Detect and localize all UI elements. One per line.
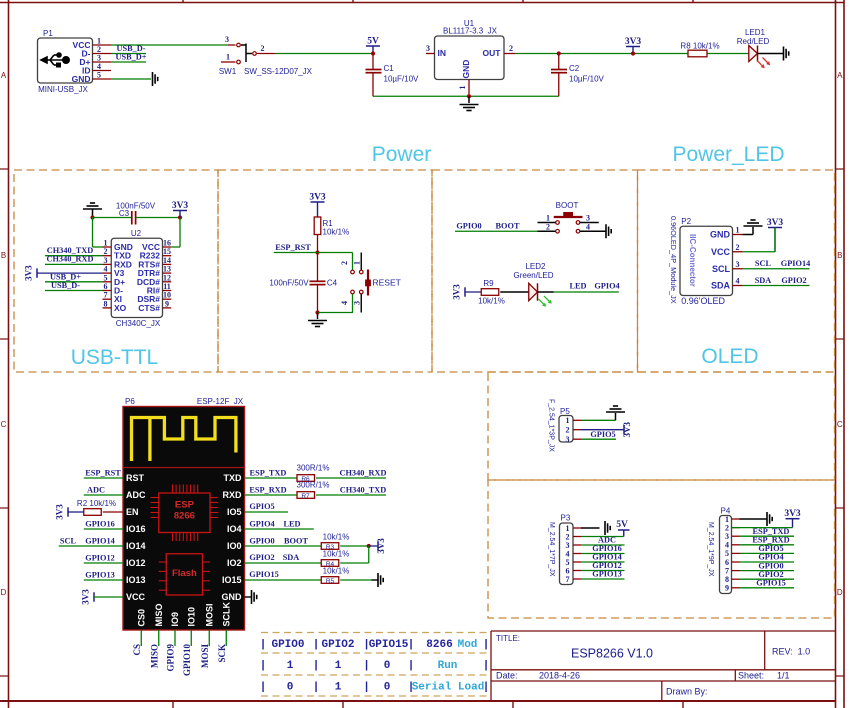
svg-text:0.96OLED_4P_Module_JX: 0.96OLED_4P_Module_JX (669, 216, 678, 304)
svg-text:MISO: MISO (149, 644, 159, 668)
svg-text:2: 2 (546, 223, 550, 232)
svg-text:|: | (408, 639, 415, 651)
svg-text:100nF/50V: 100nF/50V (269, 279, 309, 288)
svg-text:BOOT: BOOT (284, 537, 308, 546)
svg-text:GND: GND (461, 60, 471, 79)
svg-text:GPIO15: GPIO15 (249, 570, 279, 579)
svg-text:3V3: 3V3 (767, 218, 784, 228)
svg-text:SCL: SCL (60, 537, 77, 546)
svg-text:GPIO14: GPIO14 (85, 537, 115, 546)
svg-text:3V3: 3V3 (55, 504, 65, 520)
svg-text:IO10: IO10 (186, 607, 196, 627)
svg-text:13: 13 (163, 265, 171, 274)
svg-text:B: B (1, 251, 6, 260)
svg-text:USB_D+: USB_D+ (115, 53, 146, 62)
svg-text:ADC: ADC (87, 486, 105, 495)
svg-text:5V: 5V (616, 520, 628, 530)
svg-text:XO: XO (114, 303, 127, 313)
svg-text:8266: 8266 (426, 639, 452, 651)
svg-text:IO16: IO16 (126, 524, 146, 534)
svg-text:REV: 1.0: REV: 1.0 (772, 647, 810, 657)
svg-text:15: 15 (163, 247, 171, 256)
svg-text:D: D (1, 588, 7, 597)
svg-text:VCC: VCC (711, 247, 731, 257)
svg-text:3V3: 3V3 (622, 421, 632, 437)
svg-text:0.96'OLED: 0.96'OLED (681, 296, 725, 306)
svg-text:LED: LED (569, 282, 586, 291)
svg-text:A: A (837, 71, 843, 80)
svg-text:GND: GND (72, 74, 91, 84)
svg-text:GPIO0: GPIO0 (249, 537, 274, 546)
svg-text:1: 1 (546, 214, 550, 223)
svg-text:MISO: MISO (154, 603, 164, 626)
svg-text:5V: 5V (367, 37, 379, 47)
svg-text:8266: 8266 (174, 511, 195, 522)
svg-text:C4: C4 (327, 279, 338, 288)
svg-text:3V3: 3V3 (376, 538, 386, 554)
svg-text:Drawn By:: Drawn By: (666, 687, 708, 697)
svg-text:|: | (363, 682, 370, 694)
svg-text:GPIO2: GPIO2 (249, 553, 274, 562)
svg-text:IO4: IO4 (227, 524, 242, 534)
svg-text:C: C (837, 420, 843, 429)
svg-text:|: | (260, 660, 267, 672)
svg-text:GPIO12: GPIO12 (85, 554, 115, 563)
svg-text:BOOT: BOOT (496, 222, 520, 231)
svg-text:ESP8266 V1.0: ESP8266 V1.0 (571, 647, 653, 661)
svg-text:|: | (313, 682, 320, 694)
svg-text:P3: P3 (561, 514, 571, 523)
svg-text:SCK: SCK (217, 644, 227, 663)
svg-text:P1: P1 (43, 29, 53, 38)
svg-text:10k/1%: 10k/1% (478, 297, 505, 306)
svg-text:SDA: SDA (711, 281, 731, 291)
svg-text:GPIO0: GPIO0 (271, 639, 304, 651)
svg-text:R8 10k/1%: R8 10k/1% (680, 42, 719, 51)
svg-text:300R/1%: 300R/1% (297, 481, 330, 490)
svg-text:IO2: IO2 (227, 558, 242, 568)
svg-text:4: 4 (586, 223, 590, 232)
svg-text:|: | (483, 639, 490, 651)
svg-text:ESP_RXD: ESP_RXD (249, 486, 286, 495)
svg-text:|: | (408, 660, 415, 672)
svg-text:|: | (260, 682, 267, 694)
svg-text:IO9: IO9 (170, 612, 180, 627)
svg-text:|: | (483, 660, 490, 672)
svg-text:SCL: SCL (712, 264, 731, 274)
svg-text:IO0: IO0 (227, 541, 242, 551)
svg-text:CH340_TXD: CH340_TXD (47, 246, 94, 255)
svg-text:CH340_RXD: CH340_RXD (46, 255, 93, 264)
svg-text:CTS#: CTS# (138, 303, 160, 313)
svg-text:BL1117-3.3 JX: BL1117-3.3 JX (443, 27, 498, 36)
svg-text:ESP: ESP (175, 500, 195, 511)
svg-text:Serial Load: Serial Load (412, 682, 485, 694)
svg-text:10: 10 (163, 291, 171, 300)
svg-text:IO5: IO5 (227, 507, 242, 517)
svg-text:MOSI: MOSI (200, 644, 210, 669)
svg-text:GPIO14: GPIO14 (781, 259, 811, 268)
svg-text:OLED: OLED (701, 345, 758, 368)
svg-text:GPIO13: GPIO13 (592, 570, 622, 579)
svg-text:3V3: 3V3 (625, 37, 642, 47)
svg-text:CS0: CS0 (136, 609, 146, 627)
svg-text:GPIO2: GPIO2 (781, 276, 806, 285)
svg-text:7: 7 (104, 291, 108, 300)
svg-text:3: 3 (225, 35, 229, 44)
svg-text:P5: P5 (560, 407, 570, 416)
svg-text:IN: IN (438, 48, 447, 58)
svg-text:|: | (260, 639, 267, 651)
svg-text:10k/1%: 10k/1% (323, 533, 350, 542)
svg-text:Sheet:: Sheet: (738, 671, 764, 681)
svg-text:8: 8 (104, 299, 108, 308)
svg-text:GPIO0: GPIO0 (456, 222, 481, 231)
svg-text:GPIO5: GPIO5 (249, 502, 274, 511)
svg-text:GPIO2: GPIO2 (321, 639, 354, 651)
svg-text:9: 9 (165, 299, 169, 308)
svg-text:|: | (313, 639, 320, 651)
svg-text:Mod: Mod (458, 639, 478, 651)
svg-text:2: 2 (340, 261, 349, 265)
svg-text:3: 3 (586, 214, 590, 223)
svg-text:3V3: 3V3 (81, 589, 91, 605)
svg-text:3V3: 3V3 (172, 201, 189, 211)
svg-text:USB_D+: USB_D+ (50, 272, 81, 281)
svg-text:4: 4 (104, 265, 108, 274)
svg-text:16: 16 (163, 239, 171, 248)
svg-text:USB_D-: USB_D- (51, 281, 80, 290)
svg-text:CH340_RXD: CH340_RXD (339, 469, 386, 478)
svg-text:ESP_RST: ESP_RST (85, 469, 121, 478)
svg-text:3V3: 3V3 (452, 284, 462, 300)
svg-text:3V3: 3V3 (24, 265, 34, 281)
svg-text:Date:: Date: (496, 671, 518, 681)
svg-text:2: 2 (104, 247, 108, 256)
svg-text:BOOT: BOOT (556, 201, 579, 210)
svg-text:GPIO10: GPIO10 (182, 644, 192, 677)
svg-text:1/1: 1/1 (777, 671, 790, 681)
svg-text:3: 3 (104, 256, 108, 265)
svg-text:LED2: LED2 (525, 262, 546, 271)
svg-text:1: 1 (736, 226, 740, 235)
svg-text:7: 7 (566, 575, 570, 584)
svg-text:P6: P6 (125, 397, 135, 406)
svg-text:4: 4 (340, 301, 349, 305)
svg-text:IO14: IO14 (126, 541, 146, 551)
svg-text:TITLE:: TITLE: (496, 634, 520, 643)
svg-text:2: 2 (509, 44, 513, 53)
svg-text:10k/1%: 10k/1% (323, 228, 350, 237)
svg-text:D: D (837, 588, 843, 597)
svg-text:2018-4-26: 2018-4-26 (539, 671, 580, 681)
svg-text:TXD: TXD (224, 473, 243, 483)
svg-text:3: 3 (566, 435, 570, 444)
svg-text:GPIO9: GPIO9 (166, 644, 176, 672)
svg-text:RXD: RXD (222, 490, 242, 500)
svg-text:|: | (313, 660, 320, 672)
svg-text:ESP_RST: ESP_RST (275, 243, 311, 252)
svg-text:MOSI: MOSI (204, 603, 214, 626)
svg-text:P2: P2 (681, 217, 691, 226)
svg-text:R9: R9 (483, 279, 494, 288)
svg-text:RST: RST (126, 473, 145, 483)
svg-text:2: 2 (261, 44, 265, 53)
svg-text:LED: LED (283, 520, 300, 529)
svg-text:3V3: 3V3 (309, 193, 326, 203)
svg-text:C3: C3 (119, 209, 130, 218)
svg-text:EN: EN (126, 507, 139, 517)
svg-text:|: | (363, 660, 370, 672)
svg-text:1: 1 (335, 660, 342, 672)
svg-text:GPIO4: GPIO4 (594, 282, 619, 291)
svg-text:IO15: IO15 (222, 575, 242, 585)
svg-text:1: 1 (104, 239, 108, 248)
svg-text:MINI-USB_JX: MINI-USB_JX (38, 85, 88, 94)
svg-text:GPIO15: GPIO15 (756, 579, 786, 588)
svg-text:10µF/10V: 10µF/10V (569, 75, 605, 84)
svg-text:SCL: SCL (755, 259, 772, 268)
svg-text:IO13: IO13 (126, 575, 146, 585)
svg-text:IIC-Connector: IIC-Connector (688, 234, 697, 287)
svg-text:0: 0 (287, 682, 294, 694)
svg-text:0: 0 (384, 660, 391, 672)
svg-text:3: 3 (736, 260, 740, 269)
svg-text:5: 5 (97, 71, 101, 80)
svg-text:ESP_TXD: ESP_TXD (250, 469, 287, 478)
svg-text:1: 1 (458, 86, 467, 90)
svg-text:RESET: RESET (373, 278, 401, 288)
svg-text:6: 6 (104, 282, 108, 291)
svg-text:SDA: SDA (283, 553, 300, 562)
svg-text:3: 3 (353, 301, 362, 305)
svg-text:B: B (837, 251, 842, 260)
svg-text:Run: Run (438, 660, 458, 672)
svg-text:A: A (1, 71, 7, 80)
svg-text:GPIO16: GPIO16 (85, 520, 115, 529)
svg-text:C2: C2 (569, 64, 580, 73)
svg-text:12: 12 (163, 273, 171, 282)
svg-text:1: 1 (287, 660, 294, 672)
svg-text:F_2.54_1*3P_JX: F_2.54_1*3P_JX (548, 399, 555, 452)
svg-text:11: 11 (163, 282, 171, 291)
svg-text:10k/1%: 10k/1% (323, 550, 350, 559)
svg-text:R2 10k/1%: R2 10k/1% (77, 499, 116, 508)
svg-text:GND: GND (222, 592, 243, 602)
svg-text:R7: R7 (301, 493, 310, 500)
svg-text:Flash: Flash (172, 568, 197, 579)
svg-text:LED1: LED1 (745, 28, 766, 37)
svg-text:R5: R5 (326, 578, 335, 585)
svg-text:GPIO13: GPIO13 (85, 571, 115, 580)
svg-text:C: C (1, 420, 7, 429)
svg-text:10µF/10V: 10µF/10V (384, 75, 420, 84)
svg-text:4: 4 (736, 277, 740, 286)
svg-text:CS: CS (132, 644, 142, 656)
svg-text:1: 1 (566, 416, 570, 425)
svg-text:1: 1 (353, 261, 362, 265)
svg-text:Red/LED: Red/LED (737, 37, 770, 46)
svg-text:SW1: SW1 (219, 67, 237, 76)
svg-text:1: 1 (226, 53, 230, 62)
svg-text:GPIO4: GPIO4 (249, 520, 274, 529)
svg-text:SDA: SDA (755, 276, 772, 285)
svg-text:C1: C1 (384, 64, 395, 73)
svg-text:M_2.54_1*9P_JX: M_2.54_1*9P_JX (707, 522, 714, 577)
svg-text:GPIO5: GPIO5 (590, 430, 615, 439)
svg-text:CH340C_JX: CH340C_JX (116, 319, 161, 328)
svg-text:14: 14 (163, 256, 171, 265)
svg-text:U2: U2 (131, 229, 142, 238)
svg-text:M_2.54_1*7P_JX: M_2.54_1*7P_JX (548, 522, 555, 577)
svg-text:0: 0 (384, 682, 391, 694)
svg-text:Green/LED: Green/LED (513, 271, 553, 280)
svg-text:GPIO15: GPIO15 (369, 639, 409, 651)
svg-text:VCC: VCC (126, 592, 146, 602)
svg-text:Power_LED: Power_LED (672, 143, 784, 166)
svg-text:OUT: OUT (483, 48, 502, 58)
svg-text:9: 9 (725, 584, 729, 593)
svg-text:10k/1%: 10k/1% (323, 567, 350, 576)
svg-text:GND: GND (710, 230, 731, 240)
svg-text:ADC: ADC (126, 490, 146, 500)
svg-text:SCLK: SCLK (221, 602, 231, 627)
svg-text:Power: Power (372, 143, 432, 166)
svg-text:3V3: 3V3 (784, 509, 801, 519)
svg-text:CH340_TXD: CH340_TXD (340, 486, 387, 495)
svg-text:1: 1 (335, 682, 342, 694)
svg-text:2: 2 (566, 426, 570, 435)
svg-text:300R/1%: 300R/1% (297, 464, 330, 473)
svg-text:3: 3 (426, 44, 430, 53)
svg-text:USB-TTL: USB-TTL (71, 346, 159, 369)
svg-text:ESP-12F JX: ESP-12F JX (197, 397, 244, 406)
svg-text:2: 2 (736, 243, 740, 252)
svg-text:IO12: IO12 (126, 558, 146, 568)
svg-text:SW_SS-12D07_JX: SW_SS-12D07_JX (244, 67, 313, 76)
svg-text:5: 5 (104, 273, 108, 282)
